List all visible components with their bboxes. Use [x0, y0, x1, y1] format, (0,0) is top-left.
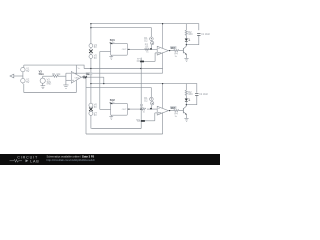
svg-text:OA1: OA1 — [75, 76, 80, 79]
svg-text:http://circuitlab.com/c/e92p3b: http://circuitlab.com/c/e92p3b492xuw4ch — [47, 158, 96, 162]
svg-text:OA2: OA2 — [158, 51, 163, 54]
svg-text:C2 10uF: C2 10uF — [199, 94, 208, 96]
svg-text:OUT: OUT — [122, 109, 127, 111]
svg-text:OA3: OA3 — [158, 111, 163, 114]
svg-text:GND: GND — [46, 83, 51, 85]
svg-text:330: 330 — [188, 93, 193, 96]
svg-text:LAB: LAB — [30, 160, 39, 164]
svg-text:5V: 5V — [94, 106, 97, 109]
svg-text:5V: 5V — [94, 57, 97, 60]
svg-text:5V: 5V — [26, 70, 29, 73]
svg-text:C1 10uF: C1 10uF — [201, 34, 210, 36]
svg-text:330: 330 — [188, 33, 193, 36]
svg-text:50m: 50m — [39, 72, 45, 76]
svg-text:Schematics available online /: Schematics available online / Gate 3 P2 — [47, 154, 95, 158]
svg-text:5V: 5V — [26, 81, 29, 84]
svg-text:5V: 5V — [94, 114, 97, 117]
svg-text:OUT: OUT — [122, 49, 127, 51]
svg-text:5V: 5V — [94, 46, 97, 49]
